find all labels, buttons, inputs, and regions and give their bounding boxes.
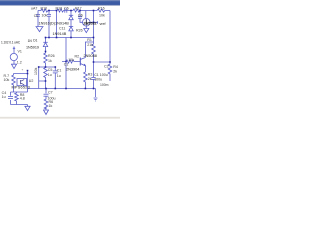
svg-text:C11: C11 (59, 26, 65, 30)
svg-text:R17: R17 (75, 6, 82, 10)
svg-text:R3: R3 (88, 72, 93, 76)
svg-text:C1: C1 (64, 63, 69, 67)
svg-text:10k: 10k (68, 58, 74, 62)
svg-text:+: + (22, 68, 24, 72)
svg-text:2N5532: 2N5532 (83, 21, 97, 26)
svg-text:D6: D6 (78, 13, 83, 17)
svg-text:2N5088: 2N5088 (84, 54, 97, 58)
svg-text:uA7: uA7 (31, 6, 37, 10)
svg-text:R26: R26 (76, 28, 83, 32)
svg-text:2k: 2k (113, 70, 117, 74)
svg-text:100u: 100u (94, 78, 102, 82)
svg-text:1.2: 1.2 (17, 61, 22, 65)
svg-text:C6: C6 (64, 6, 69, 10)
svg-text:R10: R10 (41, 6, 48, 10)
svg-text:100k: 100k (34, 67, 38, 75)
svg-text:1N914B: 1N914B (55, 22, 69, 26)
svg-text:R26: R26 (48, 54, 55, 58)
svg-text:1u: 1u (2, 95, 6, 99)
svg-text:2N3904: 2N3904 (66, 67, 79, 71)
svg-text:1N916(D): 1N916(D) (39, 22, 56, 26)
svg-text:21k: 21k (87, 43, 93, 47)
svg-text:1N914B: 1N914B (53, 32, 67, 36)
svg-text:C1 100u: C1 100u (94, 73, 108, 77)
svg-text:1u: 1u (57, 74, 61, 78)
svg-text:2k: 2k (88, 77, 92, 81)
svg-text:100m: 100m (100, 83, 109, 87)
svg-text:C7: C7 (48, 90, 53, 94)
svg-text:R1: R1 (87, 38, 92, 42)
svg-text:1u: 1u (48, 73, 52, 77)
svg-text:C1: C1 (57, 68, 62, 72)
svg-text:10k: 10k (99, 13, 105, 17)
svg-text:1N: 1N (28, 39, 33, 43)
svg-text:U2: U2 (29, 79, 34, 83)
svg-text:1k: 1k (49, 104, 53, 108)
svg-text:D1: D1 (33, 39, 37, 43)
svg-text:1k: 1k (48, 59, 52, 63)
svg-text:C2: C2 (104, 64, 109, 68)
svg-text:R16: R16 (98, 6, 105, 10)
svg-text:1N5919: 1N5919 (26, 45, 39, 49)
svg-text:vref: vref (100, 22, 106, 26)
svg-text:C5: C5 (48, 68, 53, 72)
svg-text:R2: R2 (75, 54, 80, 58)
svg-text:10k: 10k (42, 14, 48, 18)
svg-text:4.8: 4.8 (20, 97, 25, 101)
svg-text:R18: R18 (56, 6, 63, 10)
svg-text:1.102 0.1 uAC: 1.102 0.1 uAC (1, 40, 21, 44)
svg-text:MPS6523: MPS6523 (12, 85, 30, 89)
svg-text:C9: C9 (34, 14, 39, 18)
svg-text:10k: 10k (4, 78, 10, 82)
svg-text:R4: R4 (113, 65, 118, 69)
svg-text:V1: V1 (18, 50, 22, 54)
